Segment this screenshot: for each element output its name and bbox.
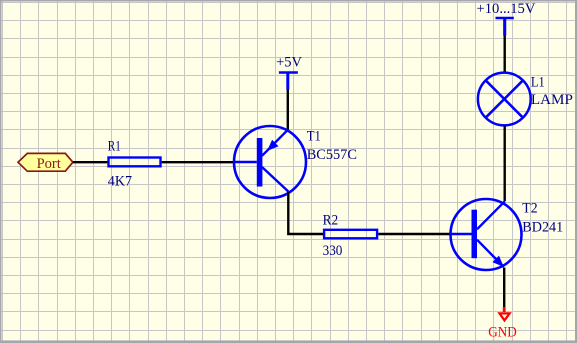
resistor R2 xyxy=(324,230,377,239)
svg-text:BC557C: BC557C xyxy=(307,147,357,163)
ground GND xyxy=(488,307,517,340)
svg-text:4K7: 4K7 xyxy=(108,173,133,189)
svg-text:T2: T2 xyxy=(522,201,537,217)
svg-text:BD241: BD241 xyxy=(522,220,563,236)
wire Port to R1 xyxy=(73,161,108,163)
wire lamp to T2 collector xyxy=(504,125,506,201)
transistor T2 (NPN BD241) xyxy=(451,199,522,270)
wire R1 to T1 base xyxy=(162,161,234,163)
svg-text:LAMP: LAMP xyxy=(531,92,573,108)
wire T2 emitter to GND xyxy=(503,268,505,308)
svg-text:+5V: +5V xyxy=(276,55,302,71)
svg-text:330: 330 xyxy=(323,243,343,259)
port symbol Port xyxy=(18,153,73,171)
power symbol +5V xyxy=(276,55,302,90)
lamp L1 xyxy=(478,73,531,126)
transistor T1 (PNP BC557C) xyxy=(234,126,306,198)
svg-text:Port: Port xyxy=(37,156,62,172)
svg-text:R2: R2 xyxy=(323,213,339,229)
wire T1 collector to R2 xyxy=(288,192,323,235)
wire R2 to T2 base xyxy=(378,233,450,235)
wire +5V to T1 emitter xyxy=(287,90,289,130)
svg-text:T1: T1 xyxy=(307,128,321,144)
resistor R1 xyxy=(109,158,161,167)
svg-text:R1: R1 xyxy=(108,139,121,155)
wire +10...15V to lamp xyxy=(504,36,506,73)
svg-text:+10...15V: +10...15V xyxy=(477,1,536,17)
svg-text:GND: GND xyxy=(488,324,517,340)
power symbol +10...15V xyxy=(477,1,536,36)
svg-text:L1: L1 xyxy=(531,74,545,90)
